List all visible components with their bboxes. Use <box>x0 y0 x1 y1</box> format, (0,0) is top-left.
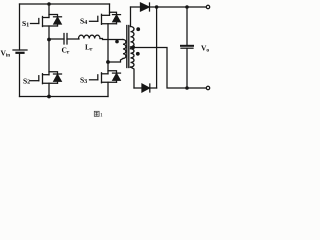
wire S2 source to bottom rail <box>48 83 50 96</box>
svg-text:S2: S2 <box>23 76 30 85</box>
node S2-rail junction <box>47 95 51 99</box>
svg-text:Vin: Vin <box>1 49 11 59</box>
node secondary upper polarity dot <box>136 27 140 31</box>
diode D-S3 body <box>108 71 121 83</box>
node A <box>47 38 51 42</box>
node secondary lower polarity dot <box>136 52 140 56</box>
node rail-S1 junction <box>47 2 51 6</box>
diode D1 rectifier top <box>131 3 207 11</box>
terminal output minus <box>206 86 209 89</box>
transformer T1 secondary lower winding <box>131 49 135 67</box>
inductor Lr <box>79 35 101 38</box>
wire Lr to primary top <box>100 39 123 40</box>
svg-text:S3: S3 <box>80 76 87 85</box>
wire secondary top lead <box>130 7 132 27</box>
wire output minus to terminal <box>187 87 206 89</box>
svg-text:Cr: Cr <box>62 46 70 56</box>
svg-text:Vo: Vo <box>201 44 209 54</box>
diode D-S2 body <box>49 72 62 84</box>
svg-text:S1: S1 <box>22 19 29 28</box>
capacitor Cr <box>49 34 79 45</box>
diode D-S1 body <box>49 15 62 27</box>
wire S4 source to node B <box>107 24 109 62</box>
node primary polarity dot <box>115 40 119 44</box>
svg-text:1: 1 <box>100 112 103 118</box>
wire primary bottom to node B <box>108 59 123 63</box>
wire cathode bus vertical <box>156 7 158 88</box>
transistor S4 <box>90 14 117 24</box>
wire S2 drain from node A <box>48 40 50 75</box>
diode D-S4 body <box>110 12 121 23</box>
wire bottom rail <box>20 96 109 98</box>
wire center tap to output minus <box>131 48 187 89</box>
node D1 cathode junction <box>155 5 159 9</box>
transistor S1 <box>31 17 58 27</box>
svg-text:Lr: Lr <box>85 43 93 53</box>
wire S3 source to bottom rail <box>107 82 109 96</box>
capacitor Co output <box>181 7 193 88</box>
transformer T1 primary winding <box>123 40 126 59</box>
terminal output plus <box>206 5 209 8</box>
label caption figure 1 <box>94 111 99 116</box>
node center tap <box>131 45 135 49</box>
wire S3 drain from node B <box>107 62 109 74</box>
transistor S2 <box>31 74 58 84</box>
transistor S3 <box>90 73 117 83</box>
source Vin battery <box>13 50 27 53</box>
node output minus junction <box>185 86 189 90</box>
wire left rail upper <box>19 4 21 50</box>
wire S1 source to node A <box>48 26 50 40</box>
wire S1 drain <box>48 4 50 18</box>
node output plus junction <box>185 5 189 9</box>
wire top rail <box>20 3 110 5</box>
wire left rail lower <box>19 53 21 97</box>
svg-text:S4: S4 <box>80 17 87 26</box>
wire secondary bottom lead <box>131 67 135 88</box>
wire S4 drain <box>109 4 111 15</box>
node B <box>106 60 110 64</box>
transformer T1 secondary upper winding <box>131 27 135 47</box>
diode D2 rectifier bottom <box>134 84 157 92</box>
transformer core <box>127 26 129 68</box>
